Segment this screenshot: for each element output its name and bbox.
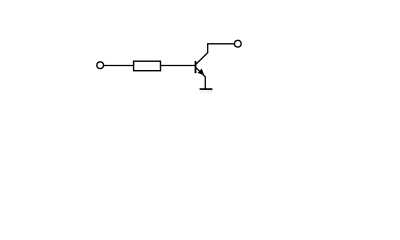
transistor Q1 collector diagonal: [196, 52, 208, 64]
ground bar: [200, 88, 213, 90]
resistor R1 (box style): [134, 61, 161, 70]
wire: collector horizontal to output terminal: [207, 43, 234, 45]
wire: collector vertical segment: [207, 44, 209, 53]
wire: input terminal to resistor R1: [104, 65, 134, 67]
transistor Q1 base bar: [195, 61, 197, 73]
wire: resistor R1 to base of Q1: [161, 65, 196, 67]
transistor Q1 emitter diagonal: [196, 67, 206, 77]
node IN terminal (open circle, left): [97, 62, 104, 69]
wire: emitter vertical to ground: [204, 76, 206, 88]
ground hatch (faint): [201, 90, 213, 93]
transistor Q1 emitter arrow (NPN, pointing out): [198, 69, 203, 74]
node OUT terminal (open circle, top right): [234, 40, 241, 47]
